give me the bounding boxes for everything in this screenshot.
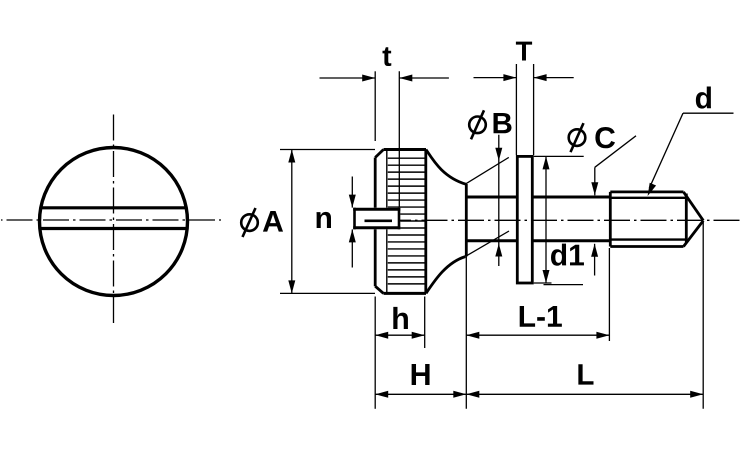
head left face	[374, 158, 377, 287]
dim phiB : vertical dimension line with arrows	[498, 135, 500, 266]
head bottom edge	[384, 292, 427, 295]
head circle (front view)	[40, 148, 188, 296]
dim T : extension line right	[533, 64, 535, 155]
thread major bottom line	[610, 245, 683, 248]
pin bottom edge	[353, 226, 400, 229]
flange top extension + phi-C underline	[534, 155, 584, 157]
knurl right edge	[424, 149, 427, 293]
slot depth line	[365, 220, 393, 223]
dim L-1 : dimension line	[466, 334, 609, 336]
label phiC	[569, 123, 586, 152]
dim phiA : vertical dimension line	[291, 149, 293, 293]
slot lower edge (chord)	[40, 227, 187, 230]
knurl lines (horizontal ridges)	[388, 158, 425, 284]
label T	[516, 42, 532, 61]
thread tip chamfer top	[684, 192, 704, 221]
dim phiC : upper arrow	[594, 167, 596, 195]
label L-1	[520, 306, 562, 327]
thread minor bottom line	[610, 238, 686, 240]
head bottom-left chamfer	[375, 286, 383, 293]
dim d1 : vertical dimension line with arrows	[545, 156, 547, 283]
dim d : leader line	[649, 113, 683, 188]
dim phiC : leader diagonal	[595, 136, 636, 168]
dim h : right extension line	[424, 297, 426, 349]
head-shaft junction face	[465, 184, 468, 256]
dim T : right arrow line	[534, 77, 574, 79]
dim L : right extension line (thread tip)	[702, 222, 704, 409]
pin left face	[353, 208, 356, 230]
dim L-1 : right extension line (thread start)	[608, 248, 610, 341]
shaft top edge	[466, 196, 609, 199]
shaft bottom edge	[466, 239, 609, 242]
label H	[412, 364, 430, 385]
pin top edge	[353, 208, 400, 211]
junction extension line (shared H/L-1/L)	[465, 256, 467, 408]
dim h : dimension line	[375, 334, 425, 336]
dim t : extension line right (down to pin)	[398, 71, 400, 207]
pin right boundary	[398, 208, 401, 230]
flange bottom extension	[534, 282, 552, 284]
label d	[696, 87, 711, 109]
thread start face	[609, 192, 612, 247]
dim t : right arrow line	[399, 77, 449, 79]
thread tip chamfer bottom	[684, 221, 704, 247]
dim phiA : top extension line	[280, 149, 375, 151]
thread major top line	[610, 190, 683, 193]
head top edge	[384, 148, 427, 151]
label phiA	[241, 208, 258, 237]
chamfer band line (left of knurl field)	[386, 151, 388, 292]
dim n : lower arrow	[351, 229, 353, 267]
d1 label underline	[544, 284, 584, 286]
dim phiC : lower arrow	[594, 244, 596, 276]
slot upper edge (chord)	[41, 206, 186, 209]
dim phiB : oblique extension upper	[466, 157, 509, 183]
label d1	[551, 244, 584, 266]
label phiB	[469, 110, 486, 139]
label h	[393, 307, 408, 329]
vertical centerline of front view	[113, 115, 115, 327]
side view centerline	[400, 219, 744, 221]
label L	[578, 364, 593, 384]
dim d : arrowhead	[648, 183, 657, 196]
head top-left chamfer	[375, 150, 383, 158]
dim phiA : bottom extension line	[280, 292, 375, 294]
head bottom concave curve to shaft	[426, 257, 465, 294]
thread minor top line	[610, 197, 686, 199]
slot boss pin (white body)	[353, 208, 400, 230]
dim T : extension line left	[515, 64, 517, 155]
left extension line (head face, shared h/H)	[374, 297, 376, 409]
label t	[383, 47, 392, 66]
dim t : left arrow line	[320, 77, 376, 79]
dim n : upper arrow	[351, 177, 353, 208]
flange (washer) body	[517, 156, 532, 283]
dim L : dimension line	[466, 393, 703, 395]
dim d : label underline	[683, 112, 734, 114]
horizontal centerline of front view	[1, 219, 221, 221]
dim t : extension line left	[374, 71, 376, 141]
dim phiB : oblique extension lower	[465, 231, 509, 257]
dim H : dimension line	[375, 393, 466, 395]
label n	[317, 212, 331, 228]
thread end face	[685, 194, 688, 243]
head top concave curve to shaft	[426, 150, 466, 185]
dim T : left arrow line	[474, 77, 517, 79]
